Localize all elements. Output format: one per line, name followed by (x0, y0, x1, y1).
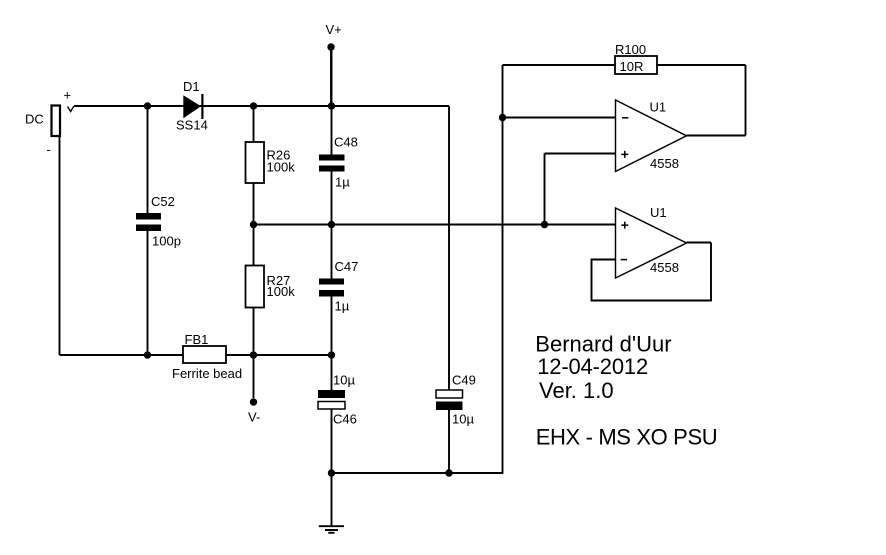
svg-text:10R: 10R (620, 59, 644, 74)
svg-text:R100: R100 (615, 42, 646, 57)
svg-text:1µ: 1µ (335, 299, 350, 314)
svg-text:100p: 100p (152, 234, 181, 249)
svg-text:V+: V+ (326, 22, 342, 37)
svg-text:+: + (64, 88, 72, 103)
svg-text:EHX - MS XO PSU: EHX - MS XO PSU (536, 424, 718, 449)
svg-text:C46: C46 (333, 412, 357, 427)
svg-text:C49: C49 (452, 373, 476, 388)
svg-text:DC: DC (25, 112, 44, 127)
svg-text:C47: C47 (335, 259, 359, 274)
svg-text:Ver. 1.0: Ver. 1.0 (539, 378, 614, 403)
svg-text:1µ: 1µ (335, 175, 350, 190)
svg-text:U1: U1 (650, 205, 667, 220)
svg-text:SS14: SS14 (176, 118, 208, 133)
svg-text:10µ: 10µ (333, 373, 355, 388)
svg-text:4558: 4558 (650, 260, 679, 275)
svg-text:C48: C48 (334, 135, 358, 150)
svg-text:Bernard d'Uur: Bernard d'Uur (535, 331, 671, 356)
svg-text:U1: U1 (650, 100, 667, 115)
svg-text:4558: 4558 (650, 156, 679, 171)
svg-text:C52: C52 (151, 194, 175, 209)
svg-text:V-: V- (248, 410, 260, 425)
svg-text:10µ: 10µ (452, 412, 474, 427)
svg-text:FB1: FB1 (185, 332, 209, 347)
svg-text:12-04-2012: 12-04-2012 (537, 354, 648, 379)
svg-text:-: - (47, 142, 51, 157)
svg-text:100k: 100k (267, 160, 296, 175)
svg-text:100k: 100k (267, 284, 296, 299)
svg-text:D1: D1 (183, 79, 200, 94)
svg-text:Ferrite bead: Ferrite bead (172, 366, 242, 381)
